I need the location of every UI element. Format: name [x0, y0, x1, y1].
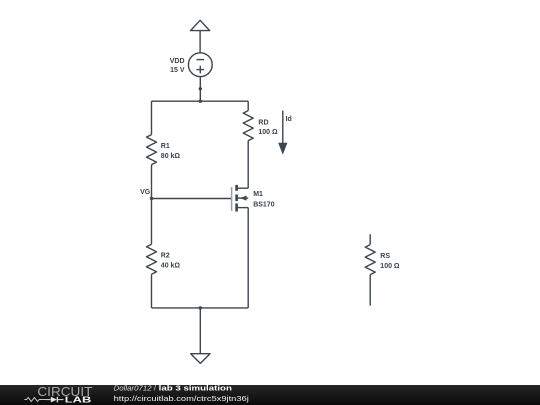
svg-text:http://circuitlab.com/ctrc5x9j: http://circuitlab.com/ctrc5x9jtn36j [114, 394, 250, 403]
wire RS top lead [369, 234, 371, 244]
svg-text:LAB: LAB [65, 395, 92, 404]
label M1 BS170 [253, 191, 275, 208]
svg-text:100 Ω: 100 Ω [258, 129, 278, 136]
resistor RD [243, 111, 253, 141]
svg-text:RS: RS [380, 253, 390, 260]
svg-text:100 Ω: 100 Ω [380, 263, 400, 270]
node VG junction dot [150, 197, 153, 200]
svg-text:Dollar0712: Dollar0712 [114, 384, 153, 393]
wire RD to drain of M1 [247, 141, 249, 189]
wire R2 to bottom rail [151, 274, 153, 308]
wire top rail to RD [247, 101, 249, 110]
ground [191, 354, 210, 364]
svg-text:Id: Id [286, 116, 292, 123]
voltage source V1 VDD 15V [188, 53, 212, 77]
resistor RS [365, 245, 375, 275]
svg-text:M1: M1 [253, 191, 263, 198]
wire to ground [199, 308, 201, 354]
wire bottom rail [152, 307, 249, 309]
resistor R1 [147, 135, 157, 165]
wire top rail [152, 100, 249, 102]
svg-text:VDD: VDD [170, 58, 185, 65]
svg-text:lab 3 simulation: lab 3 simulation [159, 384, 233, 393]
footer bar [0, 385, 540, 405]
footer title line [114, 384, 233, 393]
label RS 100 Ohm [380, 253, 400, 270]
junction dot on bottom rail [199, 306, 202, 309]
resistor R2 [147, 244, 157, 274]
wire RS bottom lead [369, 275, 371, 306]
wire R1 to VG node [151, 165, 153, 199]
transistor M1 (NMOS BS170) [232, 185, 249, 212]
svg-text:R1: R1 [161, 143, 170, 150]
svg-text:15 V: 15 V [170, 67, 185, 74]
wire source bottom to top rail [199, 77, 201, 102]
label R1 80 kOhm [161, 143, 181, 160]
svg-text:VG: VG [140, 189, 151, 196]
svg-text:40 kΩ: 40 kΩ [161, 263, 181, 270]
label R2 40 kOhm [161, 253, 181, 270]
logo resistor zigzag [24, 397, 46, 401]
wire source of M1 to bottom rail [247, 208, 249, 308]
wire VG to gate of M1 [152, 198, 232, 200]
label RD 100 Ohm [258, 119, 278, 136]
svg-text:R2: R2 [161, 253, 170, 260]
label VDD 15 V [170, 58, 185, 74]
junction dot on top rail [199, 100, 202, 103]
svg-text:RD: RD [258, 119, 268, 126]
current arrow Id [278, 111, 287, 155]
wire left rail upper [151, 101, 153, 134]
svg-text:80 kΩ: 80 kΩ [161, 153, 181, 160]
wire VG down to R2 [151, 199, 153, 245]
junction dot at source terminal [199, 87, 202, 90]
svg-text:BS170: BS170 [253, 201, 275, 208]
power flag VDD (triangle) [191, 20, 210, 53]
logo diode [46, 397, 63, 403]
